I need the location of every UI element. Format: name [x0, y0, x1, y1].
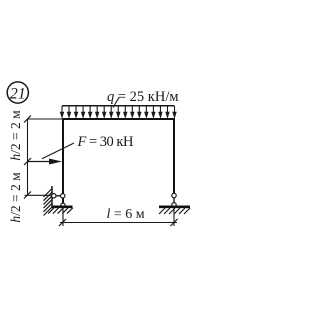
- svg-text:21: 21: [10, 85, 26, 102]
- svg-text:q = 25 кН/м: q = 25 кН/м: [107, 89, 179, 105]
- bottom dimension extension right: [173, 208, 175, 226]
- distributed load q top line: [62, 105, 175, 107]
- distributed load arrows: [60, 106, 177, 119]
- leader line to q label: [113, 98, 119, 108]
- svg-text:h/2 = 2 м: h/2 = 2 м: [8, 172, 23, 223]
- bottom dimension tick left: [59, 219, 66, 226]
- force F arrow head: [49, 159, 62, 165]
- left support ground line: [52, 206, 73, 209]
- leader line to F label: [42, 143, 74, 159]
- right support ground hatching: [159, 208, 190, 214]
- problem number badge circle 21: [7, 82, 28, 103]
- bottom dimension line: [60, 222, 177, 224]
- dimension tick top: [24, 116, 31, 123]
- svg-text:h/2 = 2 м: h/2 = 2 м: [8, 110, 23, 161]
- bottom dimension tick right: [171, 219, 178, 226]
- bottom dimension extension left: [62, 208, 64, 226]
- beam (top horizontal member): [62, 118, 175, 120]
- force F arrow shaft: [28, 161, 52, 163]
- hinge circle on left column: [61, 194, 65, 198]
- hinge circle on wall: [52, 194, 56, 198]
- right support link between hinges: [173, 198, 175, 204]
- right support hinge upper: [172, 193, 176, 197]
- dimension tick middle: [24, 158, 31, 165]
- bottom extension line left (through support): [25, 194, 53, 196]
- hinge circle left column base: [61, 203, 65, 207]
- left vertical dimension line: [27, 119, 29, 195]
- left support link bar: [52, 195, 63, 197]
- svg-text:F = 30 кН: F = 30 кН: [77, 134, 134, 150]
- right column: [173, 119, 175, 194]
- top extension line to dimension: [28, 118, 63, 120]
- dimension tick bottom: [24, 192, 31, 199]
- left column: [62, 119, 64, 204]
- left support wall face: [51, 186, 53, 207]
- svg-text:l = 6 м: l = 6 м: [107, 207, 145, 222]
- right support ground line: [159, 206, 190, 209]
- right support hinge lower: [172, 203, 176, 207]
- left support ground hatching: [48, 208, 73, 214]
- left support wall hatching: [44, 189, 53, 216]
